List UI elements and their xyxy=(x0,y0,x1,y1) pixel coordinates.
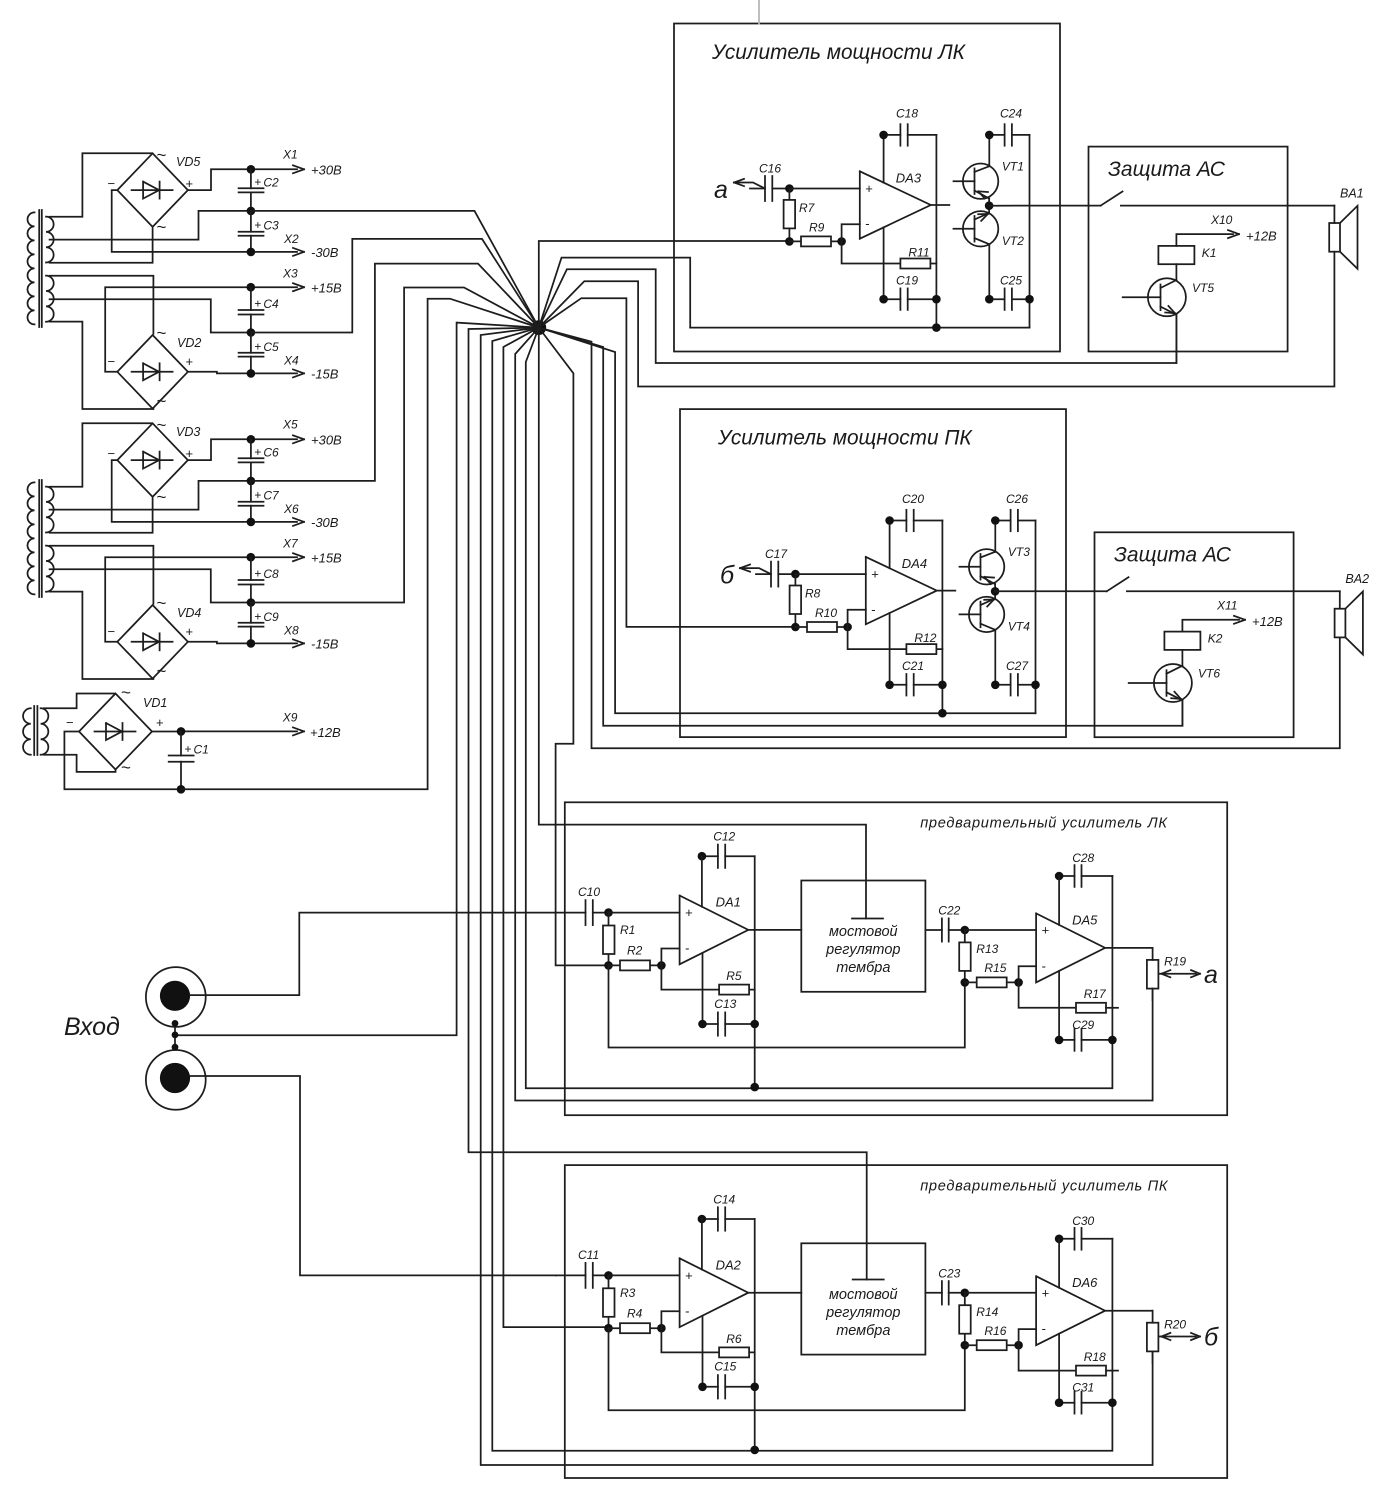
svg-text:-: - xyxy=(865,216,869,231)
capacitor C19 xyxy=(879,274,940,310)
svg-text:C13: C13 xyxy=(714,997,736,1011)
wire star to PK tone control ground xyxy=(469,328,867,1280)
junction node common2 xyxy=(247,598,256,607)
wire star to PK bus1 xyxy=(492,328,1112,1451)
wire T3 top lead xyxy=(44,694,114,709)
capacitor C27 xyxy=(991,659,1040,695)
junction node R13 bottom xyxy=(961,978,970,987)
wire speaker BA1 feed xyxy=(1333,206,1335,223)
terminal X10 +12V xyxy=(1176,213,1277,246)
svg-text:C11: C11 xyxy=(578,1248,599,1262)
svg-text:X1: X1 xyxy=(282,148,298,162)
svg-text:+: + xyxy=(254,297,261,311)
junction node ground bus xyxy=(932,323,941,332)
wire DA3 V+ pin xyxy=(883,135,885,183)
speaker BA2 xyxy=(1335,572,1369,654)
terminal X5 +30В xyxy=(247,418,342,448)
svg-text:BA1: BA1 xyxy=(1340,187,1364,201)
svg-text:R8: R8 xyxy=(805,587,821,601)
net label a output xyxy=(1158,961,1218,989)
junction node DA2 inverting xyxy=(1014,1341,1023,1350)
svg-text:X6: X6 xyxy=(283,502,299,516)
svg-text:Усилитель мощности ЛК: Усилитель мощности ЛК xyxy=(711,41,967,64)
transistor VT4 xyxy=(960,591,1031,685)
wire DA4 V+ pin xyxy=(889,521,891,569)
wire to DA1 + input xyxy=(609,912,680,914)
wire winding2 top lead xyxy=(50,546,154,604)
capacitor C10 xyxy=(556,885,609,925)
svg-text:C24: C24 xyxy=(1000,107,1022,121)
wire K1 to VT5 collector xyxy=(1175,264,1177,280)
terminal X8 -15В xyxy=(247,624,339,652)
svg-text:+30В: +30В xyxy=(311,433,342,448)
junction node common1 xyxy=(247,477,256,486)
svg-text:C30: C30 xyxy=(1072,1214,1094,1228)
junction node after cap xyxy=(791,570,800,579)
transformer T (group VD5) xyxy=(28,210,54,327)
capacitor C28 xyxy=(1055,851,1113,887)
wire T3 bottom lead xyxy=(44,755,116,772)
svg-text:−: − xyxy=(66,715,74,730)
svg-text:+: + xyxy=(871,567,879,582)
svg-text:R14: R14 xyxy=(976,1305,998,1319)
svg-text:C23: C23 xyxy=(938,1266,960,1280)
svg-text:-: - xyxy=(685,1303,689,1318)
tone control box (мостовой регулятор тембра) xyxy=(801,1243,925,1354)
svg-text:предварительный усилитель ЛК: предварительный усилитель ЛК xyxy=(920,816,1168,832)
svg-text:~: ~ xyxy=(157,488,167,507)
wire star to LK tone control ground xyxy=(539,328,866,919)
svg-text:X10: X10 xyxy=(1210,213,1233,227)
title preamp (предварительный усилитель ПК) xyxy=(920,1178,1169,1194)
junction node output xyxy=(991,587,1000,596)
junction node R bottom xyxy=(604,961,613,970)
resistor R6 xyxy=(661,1328,754,1357)
svg-text:C27: C27 xyxy=(1006,659,1029,673)
svg-text:R12: R12 xyxy=(914,631,936,645)
bridge rectifier VD2 xyxy=(108,324,202,411)
svg-text:+: + xyxy=(186,624,194,639)
svg-text:DA6: DA6 xyxy=(1072,1275,1098,1290)
svg-text:X5: X5 xyxy=(282,418,298,432)
wire star to R10 ground xyxy=(539,298,796,627)
wire winding1 top lead xyxy=(50,153,152,217)
wire star to input ground xyxy=(175,323,539,1036)
op-amp DA2 xyxy=(680,1257,749,1327)
wire input 2 to C11 xyxy=(190,1076,556,1275)
capacitor C26 xyxy=(991,492,1036,531)
junction node after input cap xyxy=(604,908,613,917)
svg-text:X3: X3 xyxy=(282,267,298,281)
input connector 2 (right channel) xyxy=(146,1050,206,1110)
tone control box (мостовой регулятор тембра) xyxy=(801,881,925,992)
label input (Вход) xyxy=(64,1013,120,1041)
capacitor C1 xyxy=(169,731,209,789)
wire VT5 emitter down xyxy=(1175,315,1177,363)
svg-text:C26: C26 xyxy=(1006,492,1028,506)
capacitor C5 xyxy=(239,333,279,374)
svg-text:предварительный усилитель ПК: предварительный усилитель ПК xyxy=(920,1178,1169,1194)
capacitor C9 xyxy=(239,603,279,644)
wire DA3 V- pin xyxy=(883,227,885,299)
capacitor C20 xyxy=(885,492,942,531)
resistor R18 xyxy=(1019,1345,1118,1375)
svg-text:+: + xyxy=(685,1268,693,1283)
wire star to BA2 return xyxy=(539,328,1340,749)
svg-text:DA4: DA4 xyxy=(902,556,927,571)
wire right cap bus xyxy=(1029,135,1031,328)
junction node after tone cap xyxy=(961,926,970,935)
wire to DA5 + input xyxy=(965,929,1036,931)
op-amp DA3 xyxy=(860,170,931,238)
junction node R bottom xyxy=(604,1324,613,1333)
svg-text:C31: C31 xyxy=(1072,1381,1094,1395)
wire C28 right vertical xyxy=(1111,1239,1113,1403)
wire common2 to star xyxy=(251,239,539,333)
wire switch to speaker xyxy=(1127,590,1340,592)
capacitor C15 xyxy=(698,1360,759,1399)
svg-text:C7: C7 xyxy=(263,489,280,503)
transistor VT3 xyxy=(960,521,1031,592)
capacitor C6 xyxy=(239,439,279,481)
transformer T (group VD3) xyxy=(27,480,53,597)
scan artifact line xyxy=(758,0,760,24)
junction node bus1 xyxy=(750,1446,759,1455)
resistor R9 xyxy=(789,221,841,247)
wire star to VT5 emitter return xyxy=(539,269,1177,363)
terminal X9 +12V xyxy=(177,711,341,741)
wire winding1 top lead xyxy=(50,423,152,487)
wire DA6 V+ pin xyxy=(1058,1239,1060,1288)
svg-text:+: + xyxy=(185,742,192,756)
capacitor C8 xyxy=(239,557,279,602)
capacitor C4 xyxy=(239,287,279,332)
svg-text:R20: R20 xyxy=(1164,1317,1186,1331)
resistor R8 xyxy=(790,574,821,627)
svg-text:+: + xyxy=(186,354,194,369)
svg-text:R6: R6 xyxy=(726,1332,742,1346)
transistor VT5 xyxy=(1123,278,1215,316)
terminal X1 +30В xyxy=(247,148,342,178)
svg-text:C16: C16 xyxy=(759,162,781,176)
svg-text:б: б xyxy=(720,562,735,590)
wire input 1 to C10 xyxy=(190,913,556,996)
wire K2 to VT6 collector xyxy=(1181,650,1183,666)
wire winding2 center tap xyxy=(50,569,249,602)
capacitor C11 xyxy=(556,1248,609,1288)
svg-text:~: ~ xyxy=(121,758,131,777)
transformer T3 xyxy=(23,706,48,755)
svg-text:C28: C28 xyxy=(1072,851,1094,865)
wire VD3 + to X5 xyxy=(188,439,249,460)
svg-text:+: + xyxy=(254,175,261,189)
resistor R12 xyxy=(848,627,943,654)
wire star to BA1 return xyxy=(539,252,1335,387)
svg-text:C19: C19 xyxy=(896,274,918,288)
svg-text:-: - xyxy=(871,602,875,617)
svg-text:регулятор: регулятор xyxy=(825,942,900,958)
transistor VT2 xyxy=(954,206,1025,300)
wire output to protection switch xyxy=(989,205,1101,207)
svg-text:a: a xyxy=(1204,961,1218,989)
svg-text:K1: K1 xyxy=(1202,246,1217,260)
svg-text:C6: C6 xyxy=(263,445,279,459)
svg-text:C4: C4 xyxy=(263,297,279,311)
svg-text:+: + xyxy=(685,905,693,920)
svg-text:C1: C1 xyxy=(194,743,209,757)
preamp box (предварительный усилитель ЛК) xyxy=(565,802,1227,1115)
terminal X7 +15В xyxy=(247,537,343,566)
protection box (K1) xyxy=(1089,147,1288,352)
title protection (K2) xyxy=(1114,544,1232,567)
wire output to protection switch xyxy=(995,590,1107,592)
svg-text:+: + xyxy=(865,181,873,196)
svg-text:R3: R3 xyxy=(620,1286,636,1300)
junction node after input cap xyxy=(604,1271,613,1280)
svg-text:C9: C9 xyxy=(263,610,279,624)
svg-text:R9: R9 xyxy=(809,221,825,235)
svg-text:~: ~ xyxy=(157,146,167,165)
op-amp DA6 xyxy=(1036,1275,1105,1345)
svg-text:~: ~ xyxy=(157,416,167,435)
svg-text:+: + xyxy=(254,488,261,502)
wire VT6 emitter down xyxy=(1181,700,1183,725)
wire C right vertical bus xyxy=(935,135,937,328)
svg-text:DA5: DA5 xyxy=(1072,912,1098,927)
svg-text:регулятор: регулятор xyxy=(825,1305,900,1321)
svg-text:−: − xyxy=(108,354,116,369)
capacitor C18 xyxy=(879,107,936,146)
wire C28 right vertical xyxy=(1111,876,1113,1040)
svg-text:-: - xyxy=(685,941,689,956)
svg-text:VT6: VT6 xyxy=(1198,667,1220,681)
wire DA4 output stub xyxy=(937,590,956,592)
svg-text:X2: X2 xyxy=(283,232,299,246)
svg-text:-15В: -15В xyxy=(311,367,339,382)
wire VD4 + to X8 xyxy=(188,642,249,644)
capacitor C17 xyxy=(756,547,795,587)
svg-text:C29: C29 xyxy=(1072,1018,1094,1032)
svg-text:+30В: +30В xyxy=(311,163,342,178)
svg-text:R5: R5 xyxy=(726,969,742,983)
wire speaker BA2 feed xyxy=(1339,591,1341,608)
svg-text:-: - xyxy=(1042,1321,1046,1336)
wire DA4 V- pin xyxy=(889,613,891,685)
transistor VT1 xyxy=(954,135,1024,206)
wire winding2 top lead xyxy=(50,276,154,334)
svg-text:Защита АС: Защита АС xyxy=(1108,158,1226,181)
svg-text:a: a xyxy=(714,176,728,204)
svg-text:+: + xyxy=(254,609,261,623)
svg-text:~: ~ xyxy=(121,683,131,702)
wire star to PK bus2 xyxy=(481,328,1153,1465)
wire ground reference link xyxy=(609,1328,965,1410)
wire to DA3 + input xyxy=(789,188,859,190)
terminal X2 -30В xyxy=(247,232,339,260)
svg-text:C8: C8 xyxy=(263,567,279,581)
resistor R16 xyxy=(965,1324,1019,1350)
svg-text:DA1: DA1 xyxy=(716,895,741,910)
capacitor C3 xyxy=(239,211,279,252)
net label б input xyxy=(720,562,771,590)
wire DA5 V- pin xyxy=(1058,971,1060,1040)
junction node inverting xyxy=(837,237,846,246)
resistor R5 xyxy=(661,965,754,994)
wire to DA2 - input xyxy=(661,1311,679,1328)
wire C12 right vertical xyxy=(754,856,756,1087)
relay coil K1 xyxy=(1158,246,1216,264)
wire DA5 V+ pin xyxy=(1058,876,1060,925)
bridge rectifier VD3 xyxy=(108,416,201,507)
terminal X11 +12V xyxy=(1182,599,1283,632)
svg-text:+12В: +12В xyxy=(310,725,341,740)
wire VD2 - to X3 xyxy=(105,287,249,372)
svg-text:C10: C10 xyxy=(578,885,600,899)
wire to DA5 - input xyxy=(1019,966,1037,982)
wire VD3 - to X6 xyxy=(112,460,249,522)
capacitor C25 xyxy=(985,274,1034,310)
svg-text:VT3: VT3 xyxy=(1008,545,1030,559)
svg-text:−: − xyxy=(108,176,116,191)
svg-text:+: + xyxy=(156,715,164,730)
svg-text:C22: C22 xyxy=(938,904,960,918)
junction node output xyxy=(985,201,994,210)
wire VD5 + to X1 xyxy=(188,169,249,190)
op-amp DA4 xyxy=(866,556,937,624)
terminal X3 +15В xyxy=(247,267,343,296)
svg-text:мостовой: мостовой xyxy=(829,1287,898,1303)
wire DA2 V+ pin xyxy=(701,1219,703,1270)
capacitor C16 xyxy=(750,162,789,202)
star ground node xyxy=(531,320,546,335)
capacitor C31 xyxy=(1055,1381,1117,1414)
svg-text:R11: R11 xyxy=(908,246,929,260)
capacitor C2 xyxy=(239,169,279,211)
wire star to LK bus2 xyxy=(515,328,1152,1101)
svg-text:~: ~ xyxy=(157,662,167,681)
svg-text:~: ~ xyxy=(157,324,167,343)
svg-text:C15: C15 xyxy=(714,1360,736,1374)
wire winding2 center tap xyxy=(50,299,249,332)
speaker BA1 xyxy=(1329,187,1363,269)
svg-text:R16: R16 xyxy=(984,1324,1006,1338)
svg-text:C12: C12 xyxy=(713,830,735,844)
relay coil K2 xyxy=(1164,632,1222,650)
resistor R15 xyxy=(965,961,1019,987)
svg-text:+12В: +12В xyxy=(1252,614,1283,629)
svg-text:тембра: тембра xyxy=(836,1323,890,1339)
wire star to R2 ground xyxy=(539,328,606,966)
wire VD2 + to X4 xyxy=(188,372,249,374)
svg-text:C21: C21 xyxy=(902,659,924,673)
junction node C1 gnd xyxy=(177,785,186,794)
op-amp DA5 xyxy=(1036,912,1105,982)
wire VD4 - to X7 xyxy=(105,557,249,642)
relay contact switch of K2 xyxy=(1107,577,1129,591)
resistor R17 xyxy=(1019,982,1118,1012)
wire star to PK amp ground bus xyxy=(539,328,1036,714)
wire to DA4 + input xyxy=(795,573,865,575)
svg-text:VT5: VT5 xyxy=(1192,281,1214,295)
wire star to R9 ground xyxy=(539,241,790,328)
bridge rectifier VD4 xyxy=(108,594,202,681)
wire to DA2 + input xyxy=(609,1274,680,1276)
wire star to LK amp ground bus xyxy=(539,258,690,328)
resistor R10 xyxy=(795,606,847,632)
svg-text:+: + xyxy=(1042,1285,1050,1300)
wire ground reference link xyxy=(609,965,965,1047)
svg-text:C3: C3 xyxy=(263,219,279,233)
wire star to VT6 emitter return xyxy=(539,328,1183,726)
svg-text:-15В: -15В xyxy=(311,637,339,652)
svg-text:C14: C14 xyxy=(713,1193,735,1207)
capacitor C7 xyxy=(239,481,280,522)
svg-text:C25: C25 xyxy=(1000,274,1022,288)
wire connector grounds xyxy=(172,1020,179,1051)
svg-text:+: + xyxy=(186,446,194,461)
wire VD1 + to X9 xyxy=(152,731,181,733)
svg-text:VD4: VD4 xyxy=(177,606,201,620)
junction node DA2 inverting xyxy=(1014,978,1023,987)
svg-text:+: + xyxy=(1042,923,1050,938)
svg-text:BA2: BA2 xyxy=(1345,572,1369,586)
input connector 1 (left channel) xyxy=(146,967,206,1027)
svg-text:R7: R7 xyxy=(799,201,816,215)
svg-text:Защита АС: Защита АС xyxy=(1114,544,1232,567)
svg-text:VD1: VD1 xyxy=(143,696,167,710)
wire DA2 V- pin xyxy=(702,1316,704,1387)
resistor R11 xyxy=(842,241,937,268)
svg-text:C17: C17 xyxy=(765,547,788,561)
svg-text:-30В: -30В xyxy=(311,245,339,260)
wire winding1 bottom lead xyxy=(50,228,153,263)
wire winding2 bottom lead xyxy=(50,592,154,679)
wire right cap bus xyxy=(1035,521,1037,714)
svg-text:+12В: +12В xyxy=(1246,229,1277,244)
title Усилитель мощности ПК xyxy=(717,427,973,450)
wire to DA1 - input xyxy=(661,949,679,966)
wire winding1 center tap xyxy=(50,481,249,510)
svg-text:+: + xyxy=(254,445,261,459)
wire common3 to star xyxy=(251,264,539,481)
preamp box (предварительный усилитель ПК) xyxy=(565,1165,1227,1478)
svg-text:VT1: VT1 xyxy=(1002,160,1024,174)
relay contact switch of K1 xyxy=(1101,192,1123,206)
resistor R13 xyxy=(959,930,998,982)
svg-text:мостовой: мостовой xyxy=(829,924,898,940)
resistor R7 xyxy=(784,189,816,242)
svg-text:X9: X9 xyxy=(282,711,298,725)
svg-text:X4: X4 xyxy=(283,354,299,368)
svg-text:+: + xyxy=(254,218,261,232)
wire to DA3 - input xyxy=(842,224,860,241)
transistor VT6 xyxy=(1129,664,1221,702)
title protection (K1) xyxy=(1108,158,1226,181)
svg-text:VD2: VD2 xyxy=(177,336,201,350)
wire DA5 output xyxy=(1105,947,1153,949)
svg-text:VD3: VD3 xyxy=(176,425,200,439)
op-amp DA1 xyxy=(680,895,749,965)
junction node inverting xyxy=(843,623,852,632)
svg-text:R10: R10 xyxy=(815,606,837,620)
wire VD1 - to ground xyxy=(64,732,181,790)
svg-text:б: б xyxy=(1204,1324,1219,1352)
svg-text:X8: X8 xyxy=(283,624,299,638)
power amplifier box Усилитель мощности ПК xyxy=(680,409,1066,737)
wire common1 to star xyxy=(251,211,539,328)
wire to DA6 + input xyxy=(965,1292,1036,1294)
ground electrode LK tone control xyxy=(852,918,883,920)
